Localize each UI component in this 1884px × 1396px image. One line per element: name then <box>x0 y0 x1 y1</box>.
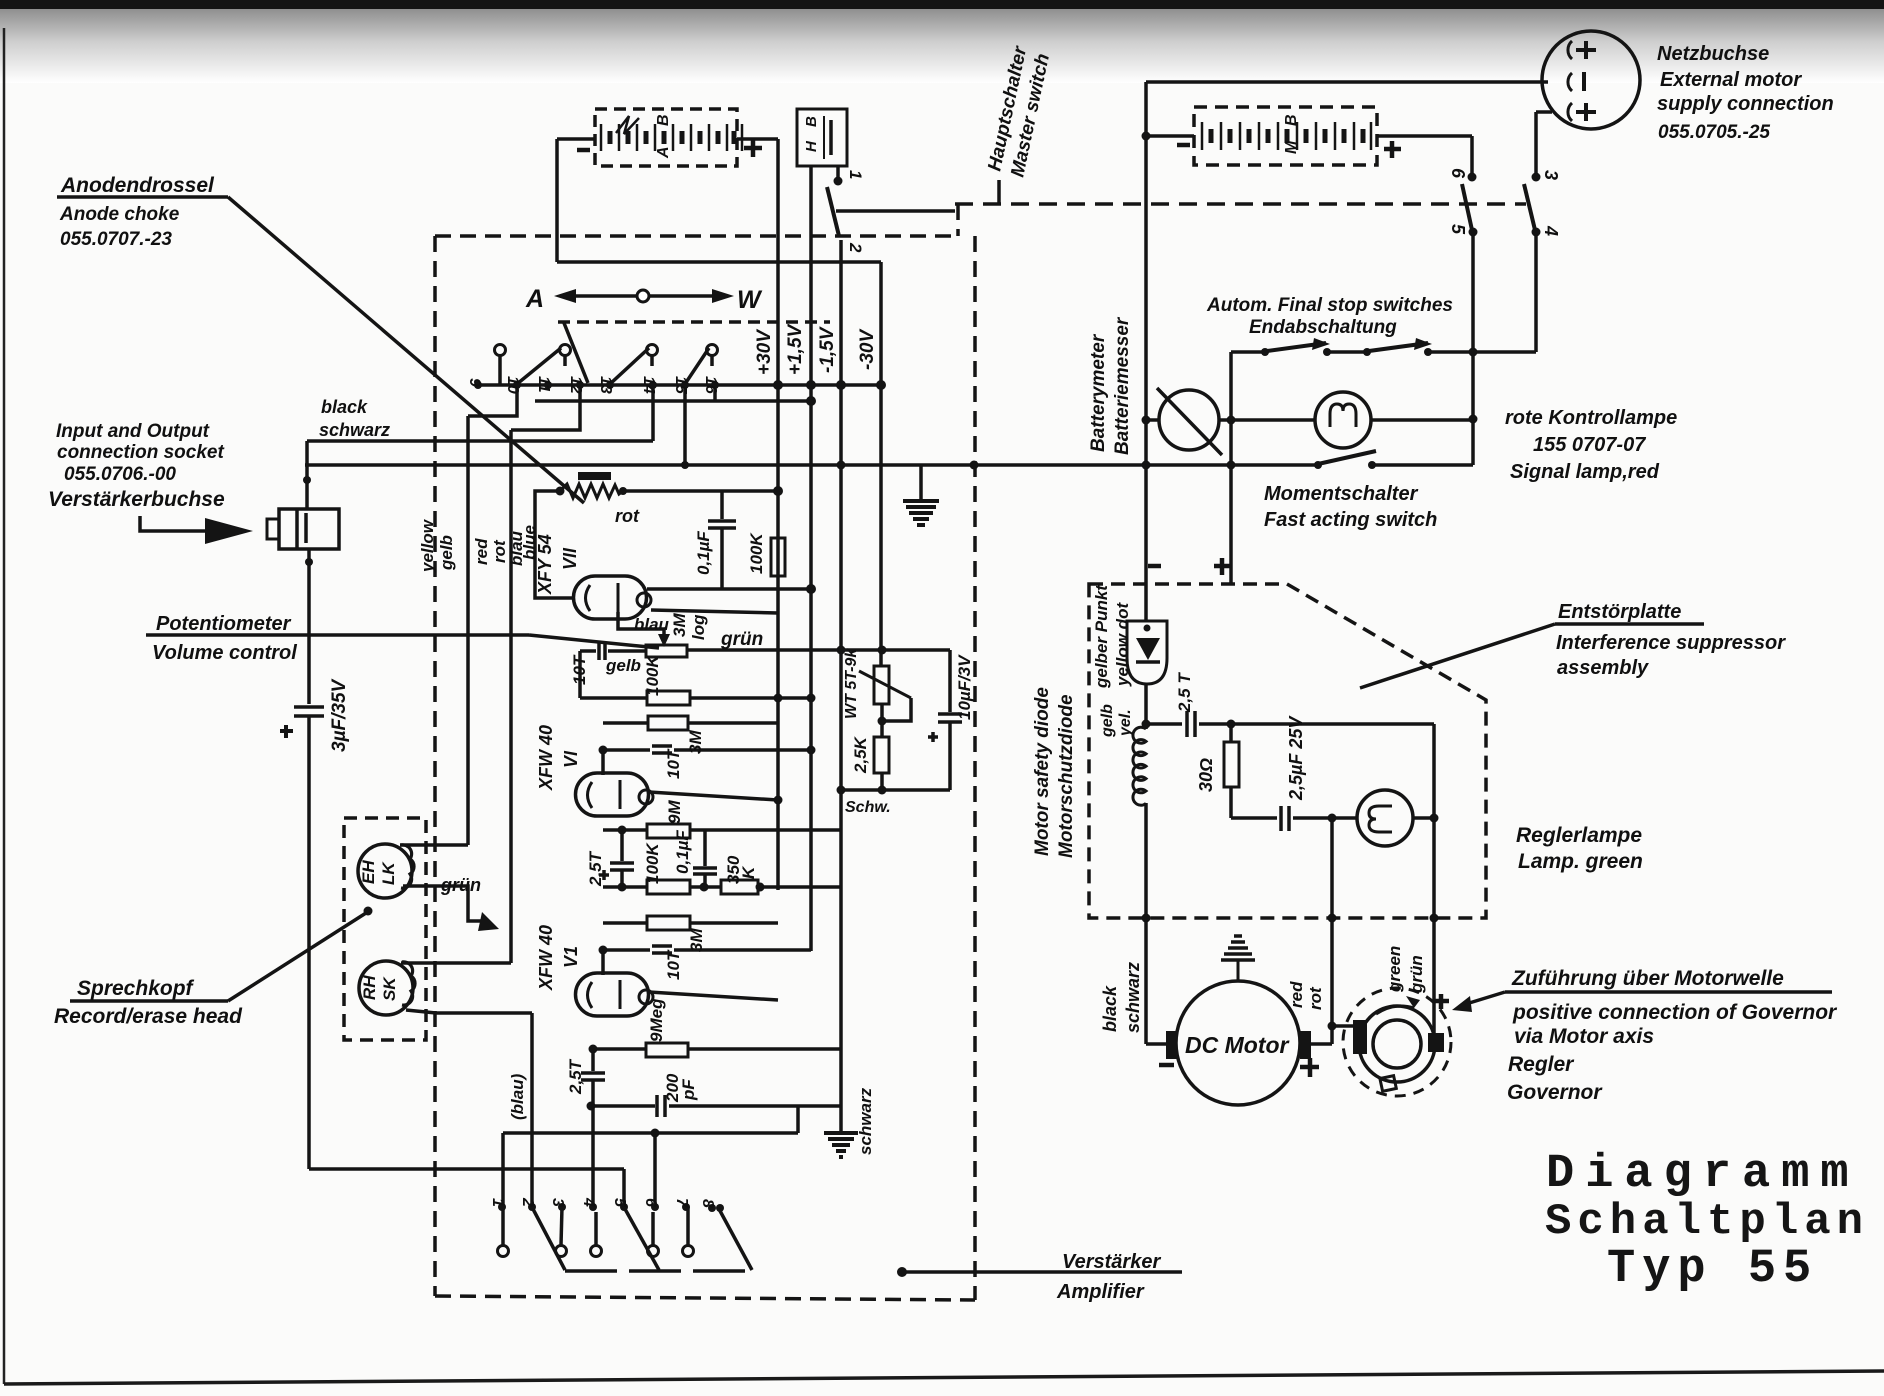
governor right pad <box>1428 1033 1444 1052</box>
svg-text:9Meg: 9Meg <box>647 998 666 1042</box>
wire lamp right <box>1371 418 1473 422</box>
wire yellow vertical <box>466 416 470 845</box>
svg-text:rot: rot <box>1306 986 1325 1010</box>
svg-text:-30V: -30V <box>857 329 878 370</box>
capacitor 2,5T electrolytic <box>618 826 627 835</box>
svg-text:6: 6 <box>642 1198 659 1207</box>
svg-text:schwarz: schwarz <box>856 1087 875 1155</box>
wire red vertical <box>509 430 513 963</box>
netzbuchse circle <box>1542 31 1640 129</box>
svg-text:Interference suppressor: Interference suppressor <box>1556 632 1786 654</box>
dc motor circle <box>1176 981 1300 1105</box>
svg-text:red: red <box>472 538 491 565</box>
wire down to contact 6 <box>1470 136 1474 177</box>
svg-text:rot: rot <box>615 506 640 526</box>
wire row y1133 <box>503 1131 798 1135</box>
wire gruen <box>687 648 950 652</box>
wire battery minus loop down <box>555 139 559 262</box>
svg-text:DC Motor: DC Motor <box>1185 1032 1290 1058</box>
svg-text:red: red <box>1287 981 1306 1008</box>
netzbuchse middle pin <box>1568 73 1572 91</box>
resistor row 3M y723 <box>603 721 648 725</box>
svg-text:H: H <box>803 140 820 152</box>
svg-text:pF: pF <box>679 1079 698 1101</box>
wire motor right <box>1311 1042 1332 1046</box>
svg-text:2,5 T: 2,5 T <box>1175 672 1194 713</box>
svg-text:Amplifier: Amplifier <box>1056 1281 1145 1303</box>
svg-text:3: 3 <box>549 1198 566 1207</box>
svg-text:black: black <box>321 397 368 417</box>
svg-text:5: 5 <box>611 1198 628 1208</box>
bottom connector contacts <box>498 1203 506 1211</box>
svg-text:10: 10 <box>504 376 521 394</box>
signal lamp red circle <box>1315 392 1371 448</box>
amplifier dashed box <box>435 204 975 1300</box>
master switch contact 1 lead <box>836 166 840 181</box>
master switch arm <box>827 187 839 236</box>
svg-text:LK: LK <box>379 861 398 885</box>
svg-text:SK: SK <box>380 976 399 1001</box>
svg-text:2,5T: 2,5T <box>566 1058 585 1095</box>
svg-text:11: 11 <box>535 376 552 393</box>
wire to endstop line <box>1473 350 1536 354</box>
svg-text:Netzbuchse: Netzbuchse <box>1657 43 1769 65</box>
switch arm 3-4 <box>1524 184 1535 230</box>
anchor cone above motor <box>1234 934 1242 938</box>
svg-text:4: 4 <box>1541 225 1561 236</box>
contact 4 dot <box>1532 228 1541 237</box>
ground symbol amplifier <box>919 465 923 499</box>
title diagramm schaltplan typ 55 <box>1545 1148 1869 1296</box>
head EH LK top wire <box>400 843 468 847</box>
wire M B battery right <box>1377 134 1472 138</box>
bottom connector prongs <box>501 1207 505 1245</box>
governor plus <box>1434 999 1449 1004</box>
resistor 9Meg row y1049 <box>593 1047 646 1051</box>
battery M B minus sign <box>1177 143 1190 148</box>
svg-text:A: A <box>525 285 544 313</box>
contact 3 dot <box>1532 173 1541 182</box>
svg-text:Governor: Governor <box>1507 1081 1603 1104</box>
governor dashed circle <box>1343 988 1451 1096</box>
wire meter to lamp <box>1219 418 1315 422</box>
contact 6 dot <box>1468 173 1477 182</box>
wire contact 14 drop <box>651 385 655 441</box>
battery M B dashed box <box>1194 107 1377 165</box>
master switch contact 1 dot <box>834 177 843 186</box>
potentiometer leader <box>146 633 529 637</box>
tube V II body <box>574 576 647 619</box>
svg-text:Motor safety diode: Motor safety diode <box>1032 687 1053 856</box>
svg-text:Autom. Final stop switches: Autom. Final stop switches <box>1206 295 1453 316</box>
wire black down to socket <box>305 441 309 509</box>
svg-text:Batterymeter: Batterymeter <box>1088 333 1109 452</box>
capacitor 0,1uF top <box>720 491 724 519</box>
verstaerkerbuchse socket <box>279 509 339 549</box>
switch arm 6-5 <box>1462 184 1472 230</box>
svg-text:-1,5V: -1,5V <box>817 326 838 373</box>
svg-text:VI: VI <box>561 750 581 768</box>
wire contact 5 down <box>1471 232 1475 465</box>
motor choke coil <box>1133 727 1146 805</box>
momentschalter line <box>305 463 1318 467</box>
battery A B minus sign <box>577 148 590 153</box>
bottom connector arms <box>533 1209 565 1270</box>
wire blau tube1 <box>535 491 575 598</box>
verstaerker leader <box>897 1267 907 1277</box>
svg-text:Entstörplatte: Entstörplatte <box>1558 601 1681 623</box>
svg-text:10T: 10T <box>664 949 683 980</box>
anodendrossel leader <box>57 195 228 199</box>
labels wire colors left <box>418 518 539 573</box>
svg-text:3µF/35V: 3µF/35V <box>329 678 350 752</box>
svg-text:3M: 3M <box>686 730 705 754</box>
svg-text:2: 2 <box>846 242 865 253</box>
tube V1 plate lead <box>649 992 778 1000</box>
svg-text:schwarz: schwarz <box>1123 962 1143 1033</box>
dc motor right terminal <box>1300 1031 1311 1059</box>
svg-text:30Ω: 30Ω <box>1196 758 1216 792</box>
resistor row 9M y830 <box>603 828 647 832</box>
resistor row 100K y698 <box>580 696 647 700</box>
battery A B cells <box>601 124 742 151</box>
governor inner circle <box>1373 1020 1421 1068</box>
socket bottom wire <box>307 549 311 704</box>
svg-text:055.0705.-25: 055.0705.-25 <box>1658 122 1770 143</box>
wire to governor <box>1332 1024 1357 1028</box>
labels bus voltages <box>754 323 878 375</box>
selector mech dashed line <box>558 320 830 324</box>
svg-text:black: black <box>1100 985 1120 1032</box>
battery H B box <box>797 109 847 166</box>
svg-text:Volume control: Volume control <box>152 642 297 664</box>
svg-text:5: 5 <box>1448 224 1468 235</box>
svg-text:155 0707-07: 155 0707-07 <box>1533 434 1646 456</box>
tube VI plate lead <box>649 792 778 800</box>
wire blau lower vertical <box>530 1013 534 1207</box>
head RH SK <box>359 961 413 1015</box>
svg-text:positive connection of Governo: positive connection of Governor <box>1512 1001 1838 1024</box>
svg-text:1: 1 <box>489 1198 506 1207</box>
head EH LK <box>358 844 412 898</box>
wire netzbuchse middle pin long <box>1146 80 1548 84</box>
anodendrossel coil <box>578 472 611 480</box>
svg-text:M: M <box>1283 140 1300 154</box>
wire contact 4 down <box>1534 232 1538 352</box>
svg-text:blau: blau <box>634 615 670 634</box>
netzbuchse top pin <box>1568 41 1572 59</box>
capacitor 10uF 3V <box>948 650 952 712</box>
wire battery minus loop across <box>557 260 881 264</box>
svg-text:B: B <box>803 116 820 127</box>
wire coil down <box>1144 803 1148 1044</box>
svg-text:Signal lamp,red: Signal lamp,red <box>1510 461 1660 483</box>
svg-text:grün: grün <box>720 629 763 650</box>
endstop switch arm 1 <box>1267 343 1326 351</box>
battery A B dashed box <box>595 109 737 166</box>
svg-text:gelb: gelb <box>1099 704 1116 738</box>
svg-text:9M: 9M <box>665 800 684 824</box>
svg-text:Typ 55: Typ 55 <box>1607 1243 1818 1296</box>
svg-text:gelber Punkt: gelber Punkt <box>1092 584 1111 689</box>
svg-text:Schaltplan: Schaltplan <box>1545 1197 1869 1247</box>
svg-text:100K: 100K <box>747 532 766 574</box>
wire 30ohm to cap 2,5uF <box>1231 816 1277 820</box>
wire battery A B right to +30V bus <box>737 137 778 141</box>
netzbuchse wire to contact 3 <box>1536 110 1552 114</box>
governor middle circle <box>1359 1006 1435 1082</box>
svg-text:yellow: yellow <box>418 518 437 573</box>
svg-text:via Motor axis: via Motor axis <box>1514 1025 1654 1048</box>
endstop switch arm 2 <box>1369 343 1428 351</box>
wire motor left <box>1146 1042 1166 1046</box>
svg-text:3M: 3M <box>670 613 689 637</box>
wire rot to +30V <box>623 489 778 493</box>
svg-text:Diagramm: Diagramm <box>1546 1148 1860 1201</box>
wire row y401 <box>535 399 811 403</box>
svg-text:XFW 40: XFW 40 <box>536 925 556 991</box>
svg-text:A: A <box>655 146 672 159</box>
junction dot coil top <box>1142 720 1151 729</box>
wire row y790 <box>841 788 950 792</box>
svg-text:Input and Output: Input and Output <box>56 421 210 442</box>
svg-text:14: 14 <box>640 376 657 394</box>
svg-text:gelb: gelb <box>437 535 456 571</box>
bus +1.5V <box>809 166 813 951</box>
svg-text:Zuführung über Motorwelle: Zuführung über Motorwelle <box>1511 967 1784 990</box>
svg-text:055.0706.-00: 055.0706.-00 <box>64 464 176 485</box>
row 200pF y1106 <box>591 1104 655 1108</box>
svg-text:16: 16 <box>702 376 719 394</box>
momentschalter contacts <box>1314 461 1322 469</box>
row 10T y750 <box>603 748 650 752</box>
tube V II plate lead <box>647 587 811 591</box>
tube V1 body <box>601 950 605 975</box>
svg-text:2: 2 <box>519 1197 536 1207</box>
wire contact 10 drop <box>468 385 517 416</box>
batteriemeter left lead <box>1146 418 1159 422</box>
capacitor 0,1uF lower <box>703 830 707 866</box>
endstop switch line <box>1231 350 1268 354</box>
governor arrow <box>1376 1006 1414 1014</box>
svg-text:Endabschaltung: Endabschaltung <box>1249 317 1397 338</box>
svg-text:B: B <box>1283 114 1300 126</box>
svg-text:1: 1 <box>846 170 865 179</box>
governor bottom square <box>1380 1076 1396 1092</box>
head EH LK bottom wire gruen arrow <box>403 886 486 921</box>
svg-text:RH: RH <box>360 975 379 1000</box>
svg-text:supply connection: supply connection <box>1657 93 1834 115</box>
svg-text:green: green <box>1385 946 1404 993</box>
svg-text:Fast acting switch: Fast acting switch <box>1264 509 1437 531</box>
svg-text:2,5K: 2,5K <box>851 735 870 774</box>
svg-text:XFY 54: XFY 54 <box>535 534 555 595</box>
capacitor 2,5T lower <box>591 1049 595 1071</box>
resistor row 100K 350K y887 <box>603 885 647 889</box>
svg-text:0,1µF: 0,1µF <box>673 830 692 874</box>
master switch common wire <box>836 209 955 213</box>
wire contact 12 drop <box>511 385 580 430</box>
svg-text:XFW 40: XFW 40 <box>536 725 556 791</box>
sprechkopf leader <box>70 999 228 1003</box>
tube VI body <box>601 750 605 775</box>
svg-text:10µF/3V: 10µF/3V <box>955 654 974 720</box>
head RH SK top wire <box>401 961 511 965</box>
potentiometer body <box>646 645 687 657</box>
svg-text:WT 5T-9k: WT 5T-9k <box>843 648 860 719</box>
svg-text:Schw.: Schw. <box>845 799 891 816</box>
resistor row 3M y923 <box>603 921 647 925</box>
svg-text:8: 8 <box>699 1199 716 1208</box>
svg-text:13: 13 <box>597 376 614 394</box>
motor safety diode <box>1127 621 1167 684</box>
svg-text:connection socket: connection socket <box>57 442 224 463</box>
minus plus marks above entstoerplatte <box>1148 564 1161 569</box>
switch bank prong contacts <box>495 345 506 356</box>
svg-text:gelb: gelb <box>605 656 641 675</box>
svg-text:Motorschutzdiode: Motorschutzdiode <box>1056 694 1077 858</box>
svg-text:12: 12 <box>567 376 584 394</box>
tube V II lower lead <box>651 610 778 613</box>
svg-text:2,5µF 25V: 2,5µF 25V <box>1286 715 1306 801</box>
svg-text:assembly: assembly <box>1557 657 1649 679</box>
batteriemeter circle <box>1159 390 1219 450</box>
resistor 30 ohm <box>1229 724 1233 742</box>
wire bottom to contact 5 <box>309 1167 624 1171</box>
wire contact 16 drop <box>713 385 717 401</box>
battery A B plus sign <box>744 146 762 151</box>
svg-text:log: log <box>689 614 708 640</box>
wire diode to coil <box>1144 684 1148 729</box>
svg-text:055.0707.-23: 055.0707.-23 <box>60 229 172 250</box>
svg-text:Anode choke: Anode choke <box>59 204 180 225</box>
svg-text:yel.: yel. <box>1117 709 1134 737</box>
entstoerplatte leader line <box>1555 622 1704 626</box>
svg-text:Reglerlampe: Reglerlampe <box>1516 824 1642 847</box>
svg-text:V1: V1 <box>561 946 581 968</box>
svg-text:3: 3 <box>1541 170 1561 180</box>
svg-text:2,5T: 2,5T <box>586 850 605 887</box>
regler lamp green circle <box>1357 790 1413 846</box>
svg-text:External motor: External motor <box>1660 69 1802 91</box>
svg-text:W: W <box>737 286 763 314</box>
head RH SK bottom wire <box>406 1010 532 1013</box>
svg-text:yellow dot: yellow dot <box>1113 602 1132 687</box>
battery M B cells <box>1202 122 1371 150</box>
svg-text:Regler: Regler <box>1508 1053 1575 1076</box>
capacitor 3uF 35V <box>294 705 324 709</box>
capacitor 2,5uF 25V plates <box>1279 806 1283 831</box>
ground symbol schwarz <box>824 1133 858 1157</box>
entstoerplatte dashed outline <box>1089 584 1486 918</box>
switch bank contact line <box>478 383 881 387</box>
svg-text:rote Kontrollampe: rote Kontrollampe <box>1505 407 1677 429</box>
switch bank arms <box>517 348 561 384</box>
svg-text:VII: VII <box>560 547 580 570</box>
svg-text:4: 4 <box>580 1197 597 1207</box>
svg-text:EH: EH <box>359 860 378 884</box>
wire black <box>307 439 653 443</box>
netzbuchse bottom pin <box>1568 103 1572 121</box>
bus -1.5V <box>839 240 843 1131</box>
svg-text:Anodendrossel: Anodendrossel <box>60 174 215 197</box>
svg-text:15: 15 <box>672 376 689 395</box>
wire M B battery left <box>1146 134 1194 138</box>
wire motor plus vertical <box>1330 818 1334 1044</box>
svg-text:100K: 100K <box>643 654 662 696</box>
svg-text:+30V: +30V <box>754 329 775 375</box>
junction dots on 1473 <box>1469 348 1478 357</box>
svg-text:3M: 3M <box>687 928 706 952</box>
svg-text:100K: 100K <box>643 842 662 884</box>
battery H B cell bars <box>823 116 825 159</box>
svg-text:grün: grün <box>440 875 481 895</box>
battery M B plus sign <box>1384 147 1401 152</box>
verstaerkerbuchse arrow <box>140 516 212 531</box>
svg-text:Momentschalter: Momentschalter <box>1264 483 1419 505</box>
svg-text:Potentiometer: Potentiometer <box>156 613 292 635</box>
svg-text:schwarz: schwarz <box>319 420 390 440</box>
resistor 100K vertical <box>771 538 785 576</box>
contact 5 dot <box>1469 228 1478 237</box>
svg-text:6: 6 <box>1448 168 1468 179</box>
svg-text:Verstärker: Verstärker <box>1062 1251 1161 1273</box>
svg-text:9: 9 <box>466 378 483 387</box>
bus -30V <box>879 262 883 666</box>
bus +30V <box>776 139 780 890</box>
governor left pad <box>1353 1020 1367 1054</box>
svg-text:Record/erase head: Record/erase head <box>54 1005 243 1028</box>
A W selector arrow <box>554 289 576 303</box>
labels switch numbers top <box>466 376 719 395</box>
dc motor left terminal <box>1166 1031 1177 1059</box>
wire coil top row <box>1146 722 1182 726</box>
svg-text:Batteriemesser: Batteriemesser <box>1112 316 1133 455</box>
svg-text:10T: 10T <box>570 654 589 685</box>
svg-text:(blau): (blau) <box>508 1073 527 1120</box>
wire battery A B left <box>557 137 595 141</box>
svg-text:7: 7 <box>673 1198 690 1208</box>
wire contact 15 drop <box>683 385 687 465</box>
master switch dashed line <box>955 202 1526 206</box>
battery A B squiggle mark <box>616 116 639 134</box>
bottom connector bus <box>565 1269 753 1273</box>
svg-text:Lamp. green: Lamp. green <box>1518 850 1643 873</box>
svg-text:0,1µF: 0,1µF <box>694 531 713 575</box>
svg-text:B: B <box>655 114 672 126</box>
hauptschalter leader <box>997 180 1001 204</box>
wire pot left with 10T cap <box>608 649 646 653</box>
labels bottom connector numbers <box>489 1197 716 1208</box>
resistor 2,5K <box>874 737 889 773</box>
svg-text:Verstärkerbuchse: Verstärkerbuchse <box>48 488 225 511</box>
potentiometer WT 5T-9k <box>874 666 889 704</box>
svg-text:10T: 10T <box>664 748 683 779</box>
capacitor 2,5T plates <box>1185 711 1189 737</box>
grid wire to potentiometer <box>618 612 664 641</box>
zufuehrung leader arrow <box>1466 992 1505 1004</box>
svg-text:grün: grün <box>1407 955 1426 994</box>
wire right side vertical governor <box>1432 724 1436 1035</box>
svg-text:+1,5V: +1,5V <box>785 323 806 375</box>
svg-text:Sprechkopf: Sprechkopf <box>77 977 195 1000</box>
svg-text:K: K <box>739 865 758 879</box>
row 10T y950 <box>603 948 650 952</box>
main vertical wire motor section <box>1144 82 1148 621</box>
heads dashed box <box>344 818 426 1040</box>
wire lamp green right <box>1413 816 1434 820</box>
